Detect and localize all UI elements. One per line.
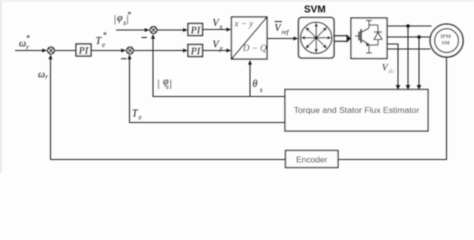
svg-text:|: | [170, 79, 172, 90]
svg-text:ref: ref [282, 29, 290, 36]
svg-text:e: e [102, 41, 105, 49]
svg-text:*: * [103, 31, 107, 40]
svg-text:PI: PI [191, 26, 202, 37]
svg-text:x − y: x − y [234, 19, 254, 29]
svg-text:Torque and Stator Flux Estimat: Torque and Stator Flux Estimator [294, 105, 420, 115]
svg-text:|: | [114, 14, 116, 25]
svg-text:SM: SM [442, 41, 450, 47]
svg-text:D − Q: D − Q [242, 43, 267, 53]
svg-text:IPM: IPM [440, 34, 450, 40]
svg-text:r: r [45, 73, 48, 81]
svg-text:r: r [26, 44, 29, 52]
svg-text:s: s [123, 19, 126, 27]
svg-text:dc: dc [389, 69, 395, 75]
svg-text:SVM: SVM [304, 5, 326, 16]
svg-text:ω: ω [38, 70, 45, 81]
svg-text:|: | [158, 79, 160, 90]
svg-text:*: * [26, 34, 30, 43]
svg-text:ω: ω [19, 39, 26, 50]
svg-text:s: s [166, 83, 169, 91]
svg-text:PI: PI [191, 47, 202, 58]
svg-text:s: s [260, 86, 263, 94]
svg-text:Encoder: Encoder [296, 154, 327, 164]
svg-text:PI: PI [79, 46, 90, 57]
svg-text:φ: φ [117, 13, 123, 24]
svg-text:e: e [139, 114, 142, 122]
svg-text:|: | [127, 14, 129, 25]
svg-text:θ: θ [253, 79, 258, 90]
